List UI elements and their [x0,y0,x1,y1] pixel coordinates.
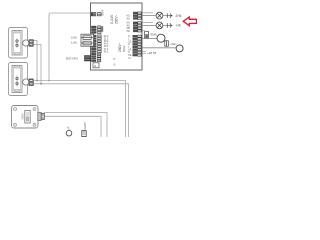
svg-text:46 2: 46 2 [104,51,109,53]
svg-text:KO: KO [127,16,131,18]
svg-text:2H6: 2H6 [176,14,182,18]
svg-text:-H6: -H6 [176,24,181,28]
svg-text:AG: AG [127,24,131,27]
svg-text:50Hz: 50Hz [122,45,126,52]
svg-text:MS: MS [127,28,131,30]
svg-text:PE: PE [128,55,132,57]
svg-text:(AE): (AE) [171,42,177,46]
svg-text:BUS: BUS [101,10,105,16]
svg-text:MOT/UPS: MOT/UPS [66,56,78,60]
svg-text:0..24V: 0..24V [110,14,114,24]
svg-text:EM5: EM5 [151,33,158,37]
svg-text:2,5A: 2,5A [71,36,77,40]
svg-text:S: S [114,63,116,67]
svg-text:KO: KO [127,23,131,25]
svg-text:230V: 230V [21,113,25,119]
svg-text:LR: LR [128,49,131,51]
svg-text:+18 65: +18 65 [147,51,157,55]
svg-text:2x24V: 2x24V [83,122,87,130]
svg-text:AG: AG [127,17,131,20]
svg-text:P: P [114,57,116,61]
svg-text:PE: PE [127,31,131,33]
svg-text:1,6A: 1,6A [71,41,77,45]
svg-text:230V~: 230V~ [115,15,119,24]
